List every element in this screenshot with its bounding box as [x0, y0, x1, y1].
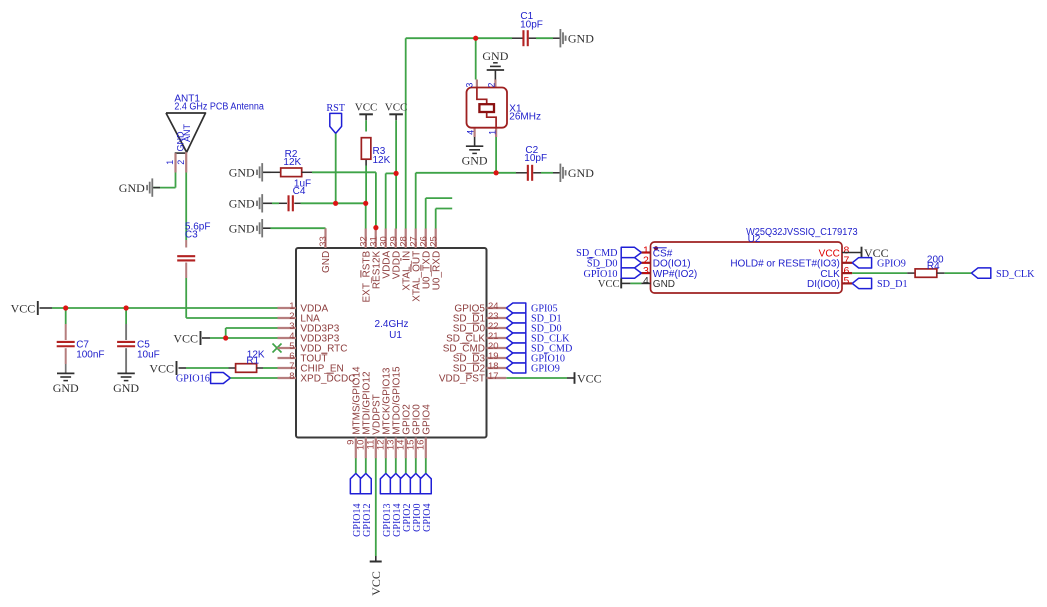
- svg-text:VCC: VCC: [577, 371, 602, 385]
- svg-text:GPIO16: GPIO16: [176, 374, 210, 385]
- svg-text:33: 33: [318, 236, 329, 247]
- svg-text:GPIO12: GPIO12: [362, 504, 373, 537]
- svg-text:4: 4: [643, 275, 649, 287]
- svg-text:10pF: 10pF: [524, 153, 547, 164]
- svg-text:VCC: VCC: [598, 279, 620, 290]
- svg-text:RST: RST: [326, 103, 345, 114]
- svg-text:10pF: 10pF: [520, 20, 543, 31]
- svg-text:VCC: VCC: [173, 331, 198, 345]
- svg-text:U1: U1: [389, 330, 402, 341]
- svg-text:26MHz: 26MHz: [509, 112, 541, 123]
- svg-text:12K: 12K: [283, 157, 301, 168]
- svg-text:12K: 12K: [373, 155, 391, 166]
- svg-text:DI(IO0): DI(IO0): [807, 279, 840, 290]
- svg-text:VCC: VCC: [369, 571, 383, 596]
- svg-text:16: 16: [415, 440, 426, 451]
- svg-text:8: 8: [289, 371, 294, 382]
- svg-text:GND: GND: [482, 49, 508, 63]
- svg-text:2: 2: [486, 83, 496, 88]
- svg-text:XPD_DCDC: XPD_DCDC: [300, 374, 355, 385]
- svg-text:SD_D1: SD_D1: [877, 279, 908, 290]
- svg-text:VCC: VCC: [385, 102, 408, 114]
- svg-text:VCC: VCC: [11, 301, 36, 315]
- svg-text:100nF: 100nF: [76, 349, 104, 360]
- svg-text:GND: GND: [462, 154, 488, 168]
- svg-text:ANT: ANT: [182, 123, 192, 142]
- svg-text:VCC: VCC: [355, 102, 378, 114]
- svg-text:GND: GND: [53, 381, 79, 395]
- svg-text:4: 4: [466, 130, 476, 135]
- svg-text:GPIO10: GPIO10: [584, 269, 618, 280]
- svg-text:GND: GND: [653, 279, 675, 290]
- svg-text:GND: GND: [119, 181, 145, 195]
- svg-text:10uF: 10uF: [137, 349, 160, 360]
- svg-text:GND: GND: [568, 32, 594, 46]
- svg-text:GPIO9: GPIO9: [531, 364, 560, 375]
- svg-text:1: 1: [165, 160, 175, 165]
- svg-text:SD_CLK: SD_CLK: [996, 269, 1035, 280]
- svg-text:GND: GND: [229, 197, 255, 211]
- svg-text:2: 2: [176, 160, 186, 165]
- svg-text:VDD_PST: VDD_PST: [439, 374, 485, 385]
- svg-text:1: 1: [487, 130, 497, 135]
- svg-text:2.4GHz: 2.4GHz: [375, 319, 409, 330]
- svg-text:25: 25: [428, 236, 439, 247]
- svg-text:GND: GND: [229, 166, 255, 180]
- svg-text:VCC: VCC: [149, 361, 174, 375]
- svg-text:GND: GND: [321, 251, 332, 273]
- svg-text:W25Q32JVSSIQ_C179173: W25Q32JVSSIQ_C179173: [746, 227, 858, 238]
- svg-text:U2: U2: [748, 234, 761, 245]
- svg-text:GPIO4: GPIO4: [422, 404, 433, 435]
- svg-text:C4: C4: [293, 186, 306, 197]
- svg-text:5: 5: [844, 275, 850, 287]
- svg-text:2.4 GHz PCB Antenna: 2.4 GHz PCB Antenna: [174, 102, 264, 113]
- svg-text:R4: R4: [927, 261, 940, 272]
- svg-text:GND: GND: [229, 222, 255, 236]
- svg-text:17: 17: [488, 371, 499, 382]
- svg-text:GND: GND: [113, 381, 139, 395]
- svg-text:R1: R1: [246, 355, 259, 366]
- svg-text:3: 3: [465, 83, 475, 88]
- svg-text:GPIO4: GPIO4: [422, 504, 433, 532]
- svg-text:GPIO9: GPIO9: [877, 259, 906, 270]
- svg-text:C3: C3: [185, 230, 198, 241]
- svg-text:GND: GND: [568, 166, 594, 180]
- svg-text:U0_RXD: U0_RXD: [431, 251, 442, 290]
